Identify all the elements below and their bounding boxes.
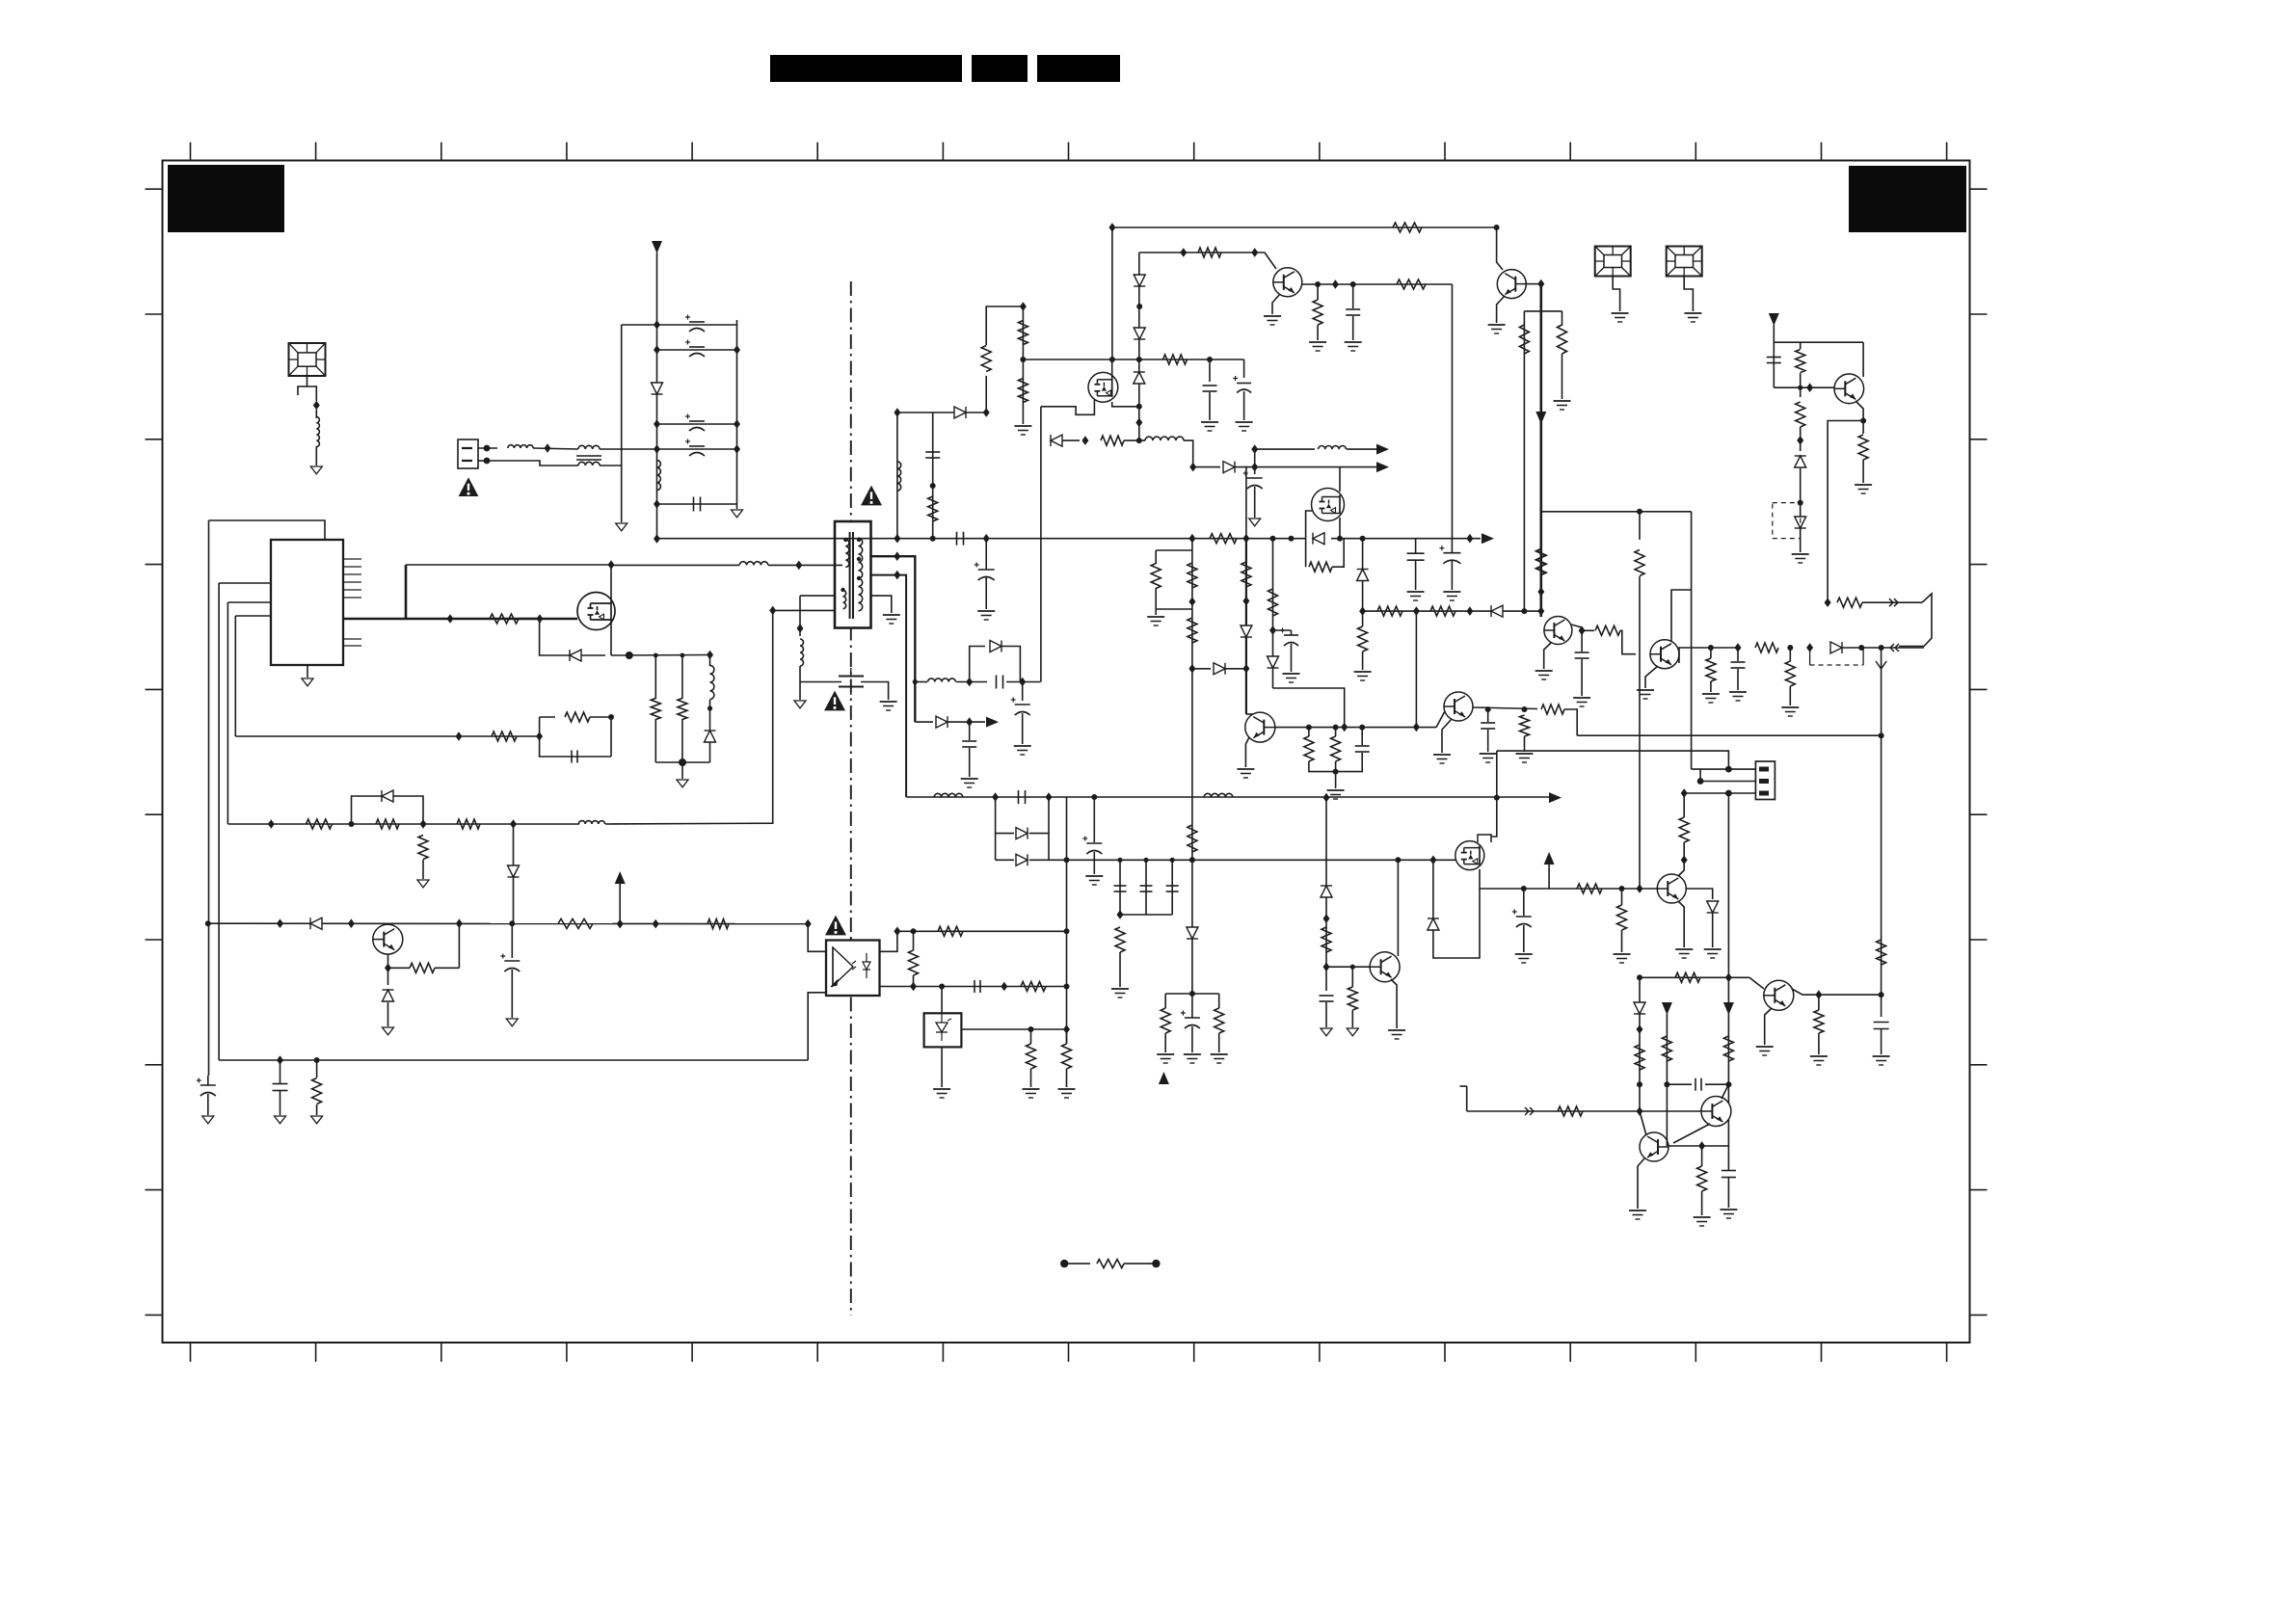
arrow B+ rail	[1549, 792, 1562, 803]
wire aux2 drop	[1138, 253, 1140, 440]
junction qa2	[348, 918, 355, 928]
wire vertical net c	[227, 602, 228, 824]
ground Q11	[1756, 1047, 1774, 1055]
wire L6 to T1	[768, 564, 842, 566]
wire snubber top	[800, 595, 835, 597]
inductor L9 out	[928, 678, 956, 682]
arrow net up	[1159, 1072, 1169, 1084]
wire arr1 line2	[1347, 448, 1376, 450]
resistor R39	[1304, 736, 1314, 761]
resistor R11 clamp	[981, 346, 991, 372]
wire c22 gnd	[207, 1094, 209, 1115]
wire fb loop top	[540, 716, 555, 718]
node aux2 c	[1136, 304, 1142, 309]
diode D25 zener	[1795, 456, 1806, 467]
wire q6 coll up	[1671, 590, 1692, 641]
capacitor C35	[1722, 1171, 1736, 1178]
wire r57 leads	[1317, 284, 1319, 300]
diode D14	[1051, 435, 1062, 446]
wire sense up	[1040, 407, 1042, 682]
node vcc a	[1207, 357, 1213, 362]
resistor R47	[1558, 325, 1567, 354]
ground C15	[1014, 746, 1031, 755]
resistor R54	[1796, 350, 1805, 373]
wire clamp top	[897, 412, 986, 413]
node bus m4	[1337, 536, 1343, 542]
capacitor C33	[1874, 1023, 1889, 1029]
junction q10 b	[1698, 1141, 1705, 1151]
wire q4 base	[1526, 283, 1541, 285]
resistor R59	[1577, 884, 1602, 893]
node svc f	[1879, 645, 1884, 651]
node rail e	[1494, 795, 1500, 801]
resistor R40	[1331, 736, 1341, 761]
wire q6 out	[1679, 648, 1738, 663]
resistor R12	[1018, 321, 1028, 345]
diode D22 zener	[1357, 570, 1369, 581]
wire q4 res top	[1524, 310, 1562, 312]
wire q12 top	[1774, 325, 1863, 342]
junction ref b	[1063, 1024, 1070, 1034]
diode D2 gate clamp	[570, 650, 581, 661]
wire out1 loop right	[1001, 647, 1020, 682]
wire rect loop right	[1048, 797, 1050, 860]
shunt regulator U3 TL431	[924, 1013, 962, 1047]
ground C3	[977, 611, 995, 620]
wire sense to q11	[1749, 977, 1764, 989]
junction brk a	[1825, 598, 1831, 607]
wire q3 line	[1139, 253, 1276, 269]
wire out1 cap drop	[1022, 682, 1024, 702]
dashed box q12	[1773, 503, 1801, 539]
ground C24	[1184, 1054, 1201, 1063]
transistor Q7b	[1444, 692, 1473, 721]
wire r57 gnd	[1317, 325, 1319, 340]
transistor Q3	[1273, 268, 1302, 297]
wire Q1 drain	[610, 565, 612, 602]
capacitor C1 fb	[572, 751, 577, 763]
resistor R48	[1595, 625, 1620, 635]
capacitor C20	[1114, 886, 1127, 891]
wire diode link	[1192, 668, 1211, 670]
wire q11 coll	[1792, 989, 1882, 995]
wire sg3 lead	[1684, 276, 1693, 311]
wire r71 gnd	[1351, 1010, 1353, 1027]
junction bus t1	[894, 534, 900, 544]
wire R20 right	[1332, 539, 1344, 568]
wire R7 gnd	[422, 860, 424, 879]
junction zchain	[1135, 418, 1142, 428]
transistor Q4	[1497, 270, 1526, 299]
junction clamp c	[1020, 302, 1027, 311]
wire vert 1951 low	[1881, 735, 1882, 1017]
junction ch2 a	[1242, 597, 1249, 606]
wire c27 leads	[1487, 709, 1489, 722]
resistor R3 fb	[565, 712, 590, 722]
capacitor C17 pol	[1082, 837, 1102, 855]
ground C38	[506, 1019, 518, 1026]
diode D20	[1241, 625, 1252, 637]
ground R69	[1694, 1217, 1711, 1226]
wire q3 to bus	[1452, 284, 1454, 539]
junction rail b	[1046, 792, 1053, 802]
wire c35 gnd	[1727, 1178, 1729, 1208]
resistor R45	[1358, 626, 1368, 652]
spark gap SG2	[1595, 247, 1631, 277]
wire d29 low	[1639, 1014, 1641, 1111]
arrow out3	[1376, 444, 1389, 455]
gate tab M3	[1478, 835, 1491, 842]
wire q12 emit	[1855, 401, 1863, 434]
wire r31 leads	[316, 1060, 318, 1078]
wire sense leg2b	[681, 719, 683, 762]
junction gd e	[1189, 463, 1196, 472]
wire U1 pin wire b	[227, 601, 271, 603]
wire CN1 pin2	[478, 460, 487, 462]
wire gd c	[1124, 439, 1145, 441]
junction sec tap2	[894, 571, 900, 580]
ground snubber	[794, 701, 806, 708]
wire clamp right leg	[985, 376, 987, 412]
wire vertical net a	[208, 520, 210, 1076]
wire q3 coll	[1302, 283, 1453, 285]
junction bank m1	[734, 345, 740, 355]
node M2 src	[1136, 404, 1142, 410]
diode D4 aux	[508, 865, 520, 877]
inductor L2	[508, 445, 533, 448]
wire vertical net d	[234, 616, 236, 736]
capacitor C11	[685, 340, 705, 358]
wire r52 leads	[1789, 648, 1791, 661]
node T1 p1	[843, 538, 847, 542]
node q3 c1	[1315, 281, 1321, 287]
wire out2 line2	[948, 721, 985, 723]
wire q10 base wire	[1668, 1145, 1728, 1147]
arrow vref	[615, 871, 626, 884]
ground C28	[1573, 698, 1590, 706]
resistor R35	[1161, 1008, 1170, 1033]
wire C5 leads	[1451, 539, 1453, 552]
node r68 a	[1664, 1081, 1669, 1087]
node sense a	[654, 653, 658, 658]
inductor L13	[1319, 446, 1347, 450]
junction q11 c	[1815, 990, 1822, 999]
wire cap row 2	[657, 349, 737, 351]
wire vcc cap2 gnd	[1243, 391, 1245, 420]
wire c32 gnd	[1523, 925, 1525, 952]
capacitor C36	[1320, 996, 1334, 1001]
junction primary	[795, 561, 802, 571]
node q3 c2	[1350, 281, 1356, 287]
wire d29 up	[1639, 977, 1641, 1002]
node conn p2	[1697, 778, 1704, 785]
wire q7a coll	[1246, 713, 1253, 715]
diode D28 zener	[1707, 901, 1719, 913]
resistor R60	[1617, 905, 1627, 930]
junction reg a	[1359, 606, 1366, 616]
node CN1a	[484, 445, 491, 452]
node ref a	[1028, 1026, 1034, 1032]
resistor R10 clamp	[928, 496, 938, 521]
diode D8	[1134, 328, 1145, 339]
wire svc drop	[1881, 648, 1882, 735]
ground R47	[1554, 401, 1571, 410]
wire qb vert	[1325, 798, 1327, 960]
node T1 s1	[857, 538, 861, 542]
capacitor C8 pol	[1233, 376, 1251, 393]
wire D4 down	[513, 824, 515, 865]
wire chain1 low	[1191, 738, 1193, 994]
wire D2 right	[581, 654, 605, 656]
wire c29 gnd	[1737, 669, 1739, 690]
wire q10 emit	[1638, 1158, 1644, 1209]
wire sense leg3c	[709, 742, 711, 762]
wire R26 gnd	[1119, 952, 1121, 987]
wire q8 zener net	[1686, 889, 1713, 899]
wire choke bottom out	[600, 466, 622, 522]
wire sense leg3b	[709, 700, 711, 730]
wire gd corner	[1184, 440, 1193, 467]
ground C23	[275, 1116, 286, 1124]
wire U1 pin wire a	[219, 582, 271, 584]
wire sense rail	[655, 761, 709, 763]
wire fb upper	[897, 930, 1067, 932]
transistor Q12	[1834, 374, 1864, 404]
wire q7b base slant	[1436, 711, 1445, 728]
arrow out4	[1376, 462, 1389, 472]
resistor R62	[1723, 1036, 1733, 1061]
wire M2 gate lead	[1041, 400, 1095, 414]
wire m3 gate up	[1491, 751, 1497, 837]
junction reg c	[1466, 606, 1473, 616]
wire r28 r	[435, 967, 459, 969]
wire arr drop	[1254, 449, 1256, 474]
junction fb left	[536, 732, 543, 741]
wire c21 net	[1145, 860, 1147, 915]
dashed link	[1810, 648, 1864, 665]
wire r61 leads	[1683, 842, 1685, 860]
wire aux rail right	[406, 564, 611, 566]
wire m3 body loop	[1433, 860, 1480, 958]
node aux1	[349, 821, 355, 827]
wire clamp up	[986, 306, 1023, 345]
IC U1 controller	[271, 540, 343, 665]
junction aux2 a	[1180, 248, 1187, 257]
node sense e	[679, 758, 686, 766]
bracket offpage	[1899, 594, 1932, 647]
inductor L6 primary	[739, 562, 768, 566]
junction railB c	[1725, 973, 1732, 983]
wire R22 lead2	[913, 975, 915, 987]
capacitor C15 pol	[1011, 698, 1030, 716]
wire top drop1	[1111, 227, 1113, 359]
wire fb loop	[540, 717, 611, 757]
wire vcc cap2	[1243, 359, 1245, 378]
node railB d	[1725, 1081, 1731, 1087]
resistor R7 pulldown	[418, 836, 428, 860]
diode D10 out	[990, 641, 1001, 652]
junction bank n2	[654, 345, 660, 355]
wire chain3	[1272, 539, 1274, 688]
wire drive line	[1467, 1110, 1701, 1112]
ground clamp	[1014, 426, 1031, 435]
diode D30 zener	[1321, 886, 1332, 897]
wire clamp left leg	[896, 412, 898, 539]
junction m3 o3	[1637, 884, 1643, 893]
wire c38 gnd	[511, 970, 513, 1018]
node m3 a	[1395, 857, 1401, 863]
wire cap row 1	[657, 324, 737, 326]
capacitor C9 out	[997, 676, 1003, 689]
junction out2	[966, 717, 973, 727]
wire L1 to ground	[315, 446, 317, 466]
wire qb base	[1326, 960, 1370, 967]
resistor R23	[1021, 982, 1046, 992]
node Q1 source	[626, 652, 633, 659]
resistor R38	[1268, 589, 1278, 616]
wire vout arrow	[1548, 864, 1550, 889]
node bus t2	[930, 536, 936, 542]
junction bus entry	[654, 534, 660, 544]
junction d29 a	[1637, 1024, 1643, 1034]
resistor R66	[1558, 1106, 1583, 1116]
node q7 r3	[1359, 725, 1365, 731]
transistor Q5	[1544, 617, 1572, 645]
wire trio gnd	[1335, 761, 1337, 788]
wire bank bypass drop	[621, 325, 623, 466]
connector CN2	[1755, 761, 1775, 800]
junction q12 d	[1797, 436, 1803, 445]
capacitor CY1	[839, 668, 864, 695]
wire arr1 line	[1255, 448, 1315, 450]
resistor R30	[707, 919, 729, 929]
diode D29	[1634, 1002, 1645, 1014]
capacitor C26	[1355, 746, 1370, 752]
wire U3 gnd	[941, 1047, 943, 1087]
junction sec tap1	[894, 551, 900, 561]
wire C4 leads	[1415, 539, 1417, 553]
wire CN1 pin1	[478, 447, 497, 449]
wire q5 to q6	[1620, 630, 1636, 653]
transistor QB	[1370, 952, 1400, 982]
wire vcc cap1	[1209, 359, 1211, 382]
resistor R18	[1151, 564, 1161, 589]
resistor R70	[1322, 927, 1331, 952]
wire r36 leads	[1218, 994, 1220, 1008]
wire reg drop	[1362, 539, 1364, 611]
chevrons out	[1889, 599, 1898, 606]
diode D6 clamp	[954, 407, 966, 418]
resistor R34	[1188, 825, 1197, 852]
ground R7	[417, 880, 429, 888]
wire c35 leads	[1727, 1146, 1729, 1170]
diode D15	[1223, 462, 1235, 473]
node sense b	[681, 653, 685, 658]
capacitor C28	[1575, 652, 1589, 658]
junction top a	[1108, 223, 1115, 232]
resistor R28	[410, 963, 435, 972]
wire vref arrow	[619, 883, 621, 924]
wire sense line	[1640, 976, 1749, 978]
junction svc c	[1806, 643, 1813, 652]
junction aux2	[420, 819, 427, 829]
ground C18	[1249, 519, 1261, 526]
ground Y-cap	[880, 702, 897, 710]
spark gap SG3	[1667, 247, 1702, 277]
wire D4 to QA	[513, 877, 515, 923]
wire r54 leads	[1800, 342, 1802, 349]
ground C27	[1480, 754, 1497, 762]
diode D7	[1134, 275, 1145, 286]
ground C5	[1443, 592, 1460, 600]
diode D13	[1016, 854, 1028, 865]
wire opto out bottom	[879, 986, 906, 988]
junction B+ top	[1537, 279, 1544, 289]
ground R60	[1614, 954, 1631, 963]
ground Q6	[1637, 690, 1654, 699]
wire C3 gnd	[985, 577, 987, 609]
resistor R55	[1858, 435, 1868, 460]
junction bank n4	[654, 444, 660, 454]
arrow net down2	[1723, 1002, 1734, 1015]
wire r47 gnd	[1562, 354, 1563, 399]
wire opto in bottom	[808, 993, 826, 1060]
node fb f	[1064, 928, 1070, 934]
wire r31 gnd	[316, 1104, 318, 1115]
wire aux line	[227, 823, 579, 825]
junction snubber	[769, 606, 776, 616]
wire aux rail up	[405, 565, 408, 619]
wire U1 gnd lead	[307, 665, 308, 678]
chevrons in	[1890, 644, 1899, 652]
inductor L8 clamp	[897, 462, 901, 491]
resistor R68	[1662, 1036, 1671, 1061]
junction gd1	[447, 614, 454, 624]
node q7b a	[1485, 706, 1491, 712]
wire sec rail	[906, 796, 1550, 798]
wire aux to snubber	[605, 610, 773, 824]
capacitor C4 bus	[1407, 553, 1425, 560]
wire rail A	[1577, 734, 1881, 736]
ground C31	[1345, 342, 1362, 351]
resistor R25	[1062, 1044, 1072, 1069]
inductor L5 aux	[578, 821, 604, 824]
wire q4 base drop	[1540, 284, 1542, 311]
capacitor C27	[1481, 723, 1495, 729]
resistor R72	[1541, 705, 1564, 714]
wire chain1	[1191, 539, 1193, 738]
MOSFET Q1	[577, 593, 615, 630]
node ch1 d	[1189, 991, 1195, 997]
resistor R57	[1313, 300, 1322, 325]
ground R52	[1781, 707, 1799, 716]
ground C35	[1720, 1210, 1737, 1218]
junction gd b	[1081, 436, 1088, 445]
wire r60 leads	[1621, 889, 1623, 905]
junction qb a	[1323, 914, 1330, 923]
junction bus t4	[1188, 534, 1195, 544]
wire U3 top	[941, 987, 943, 1014]
wire C15 gnd	[1022, 713, 1024, 744]
node q12 f	[1798, 500, 1803, 506]
capacitor C25 pol	[1280, 628, 1298, 647]
ground C7	[1201, 422, 1218, 431]
ground R24	[1023, 1089, 1040, 1098]
junction bank n1	[654, 320, 660, 330]
wire R24 gnd	[1030, 1069, 1032, 1087]
wire fb feed	[235, 735, 539, 737]
wire gd to bus	[1235, 467, 1246, 539]
